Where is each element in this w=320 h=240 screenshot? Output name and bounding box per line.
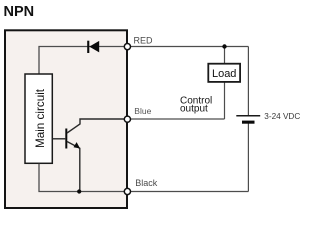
wire: battery bottom to black wire [247,122,249,191]
svg-text:Main circuit: Main circuit [34,88,47,148]
junction dot RED/load [222,44,226,48]
battery positive plate [236,115,260,117]
wire RED external [131,46,249,48]
svg-text:output: output [180,104,208,115]
wire: load bottom to blue wire [224,82,226,119]
diode D1 cathode bar [87,41,89,53]
wire: base lead from main circuit [53,138,66,140]
sensor body box [5,30,127,208]
svg-text:RED: RED [134,35,154,45]
Load box [208,64,240,82]
terminal Black [124,188,130,194]
svg-text:Blue: Blue [134,106,151,116]
svg-text:Black: Black [135,178,158,188]
wire: main circuit bottom to black terminal [39,164,125,192]
transistor Q1 emitter [67,142,80,192]
transistor Q1 emitter arrow [74,142,81,148]
wire Blue external [131,118,225,120]
transistor Q1 base bar [65,129,67,149]
main circuit box [25,74,52,163]
wire Black external [131,191,249,193]
battery negative plate [242,121,255,124]
junction dot emitter/bottom wire [77,189,81,193]
transistor Q1 collector [67,119,126,133]
terminal Blue [124,116,130,122]
wire: load branch top [224,47,226,64]
svg-text:3-24 VDC: 3-24 VDC [264,112,300,121]
wire: main circuit top to RED terminal (internal) [39,47,125,75]
terminal RED [124,44,130,50]
svg-text:Load: Load [212,68,236,80]
wire: right drop to battery top [247,47,249,116]
svg-text:NPN: NPN [4,4,35,20]
diode D1 triangle [89,41,99,53]
